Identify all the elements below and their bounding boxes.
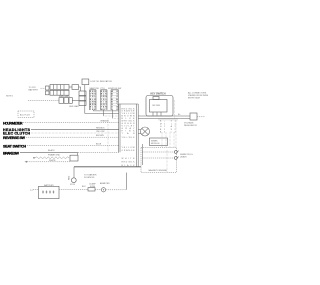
svg-text:SEAT SW: SEAT SW [90, 87, 99, 90]
svg-text:WHITE: WHITE [49, 160, 56, 162]
harness note [59, 95, 79, 108]
electric clutch [3, 131, 30, 135]
accessory plug dashed box [18, 111, 34, 118]
engine dotted drop [166, 150, 168, 173]
starter note [84, 174, 97, 180]
central harness right rail [137, 104, 139, 167]
svg-text:LEADS: LEADS [180, 156, 187, 159]
switch contact grid [160, 121, 176, 134]
magneto vertical [141, 144, 143, 165]
svg-text:YEL/BLK: YEL/BLK [122, 137, 136, 139]
svg-text:SPARK PLUG: SPARK PLUG [180, 153, 193, 156]
wire to solenoid stud [73, 167, 75, 178]
wire brake continuation [78, 151, 119, 153]
harness wire list lower [122, 137, 136, 167]
harness wire list [122, 108, 136, 135]
svg-text:OFF RUN: OFF RUN [152, 105, 161, 107]
svg-text:YELLOW: YELLOW [96, 131, 104, 133]
engine label [149, 169, 168, 172]
svg-text:BATTERY: BATTERY [29, 88, 39, 91]
relay K1 [69, 85, 79, 90]
connector J2 pin column [101, 90, 108, 111]
reverse switch [3, 136, 26, 140]
battery feed note [29, 87, 39, 92]
wire hour meter [23, 121, 119, 123]
headlights [3, 128, 31, 132]
ground zigzag lead [33, 154, 69, 159]
wire dashed to regulator [197, 116, 205, 118]
wire engine drop [126, 173, 128, 190]
wire brake / black lead [20, 151, 78, 153]
svg-text:PNK: PNK [90, 109, 96, 111]
svg-text:ELEC CLUTCH: ELEC CLUTCH [3, 131, 30, 135]
svg-text:ACC PLUG: ACC PLUG [20, 114, 30, 117]
wire K1 to F1 [79, 87, 81, 91]
engine dashed boundary [141, 148, 177, 173]
spark plug 1 [174, 151, 178, 154]
fuse F2 [88, 183, 96, 191]
low oil indicator lamp L1 [82, 79, 112, 85]
svg-text:BLUE: BLUE [96, 144, 102, 146]
starter feed arrow lead [25, 160, 71, 163]
spark plug 2 [174, 157, 178, 160]
connector note [188, 92, 209, 100]
svg-text:NOTE 1: NOTE 1 [6, 96, 14, 98]
harness top [119, 103, 139, 105]
seat switch [3, 145, 26, 149]
connector P1 [46, 85, 70, 91]
wire drop to interlock relay [77, 152, 79, 155]
svg-text:HOUR METER: HOUR METER [3, 122, 23, 126]
wire lamp to harness [85, 113, 119, 115]
key switch S1 [146, 92, 173, 116]
svg-text:SOLENOID: SOLENOID [84, 177, 95, 179]
central harness left rail [119, 104, 120, 152]
battery BT1 [39, 184, 60, 199]
regulator to engine dotted drop [175, 120, 177, 148]
svg-text:STUD: STUD [70, 184, 76, 186]
svg-text:BROWN: BROWN [96, 135, 104, 137]
fuse block F1 [79, 91, 86, 106]
spark plug note [180, 153, 193, 159]
key switch dotted drops [162, 132, 174, 148]
fuse to ammeter lead [95, 189, 101, 191]
wire dashed row C [28, 99, 59, 101]
spark plug lead 2 [142, 157, 174, 159]
connector P3 [59, 98, 72, 104]
svg-text:RED/BLK: RED/BLK [122, 161, 136, 163]
wire J1 to harness [94, 109, 120, 112]
wire clutch [31, 132, 119, 134]
connector J1 pin column [90, 90, 97, 111]
svg-text:(+): (+) [30, 189, 33, 191]
svg-text:MODULE: MODULE [151, 143, 160, 145]
connector P2 [46, 90, 70, 95]
svg-text:TO STARTER: TO STARTER [84, 174, 97, 177]
ammeter to engine lead [106, 189, 127, 191]
junction vertical dotted [107, 118, 109, 152]
hour meter [3, 122, 23, 126]
svg-text:FRAME GND: FRAME GND [48, 154, 61, 157]
svg-text:SPARK: SPARK [151, 139, 158, 142]
svg-text:BRAKE SW: BRAKE SW [3, 151, 20, 155]
contact tick bundle [159, 119, 177, 121]
svg-text:ENTRY SIDE: ENTRY SIDE [188, 98, 201, 100]
svg-text:BLACK: BLACK [122, 164, 136, 167]
wire row C to fuse block [72, 99, 79, 101]
wire headlights [31, 128, 119, 130]
connector J3 pin column [111, 90, 119, 111]
spark module box [150, 138, 168, 146]
svg-text:VOLTAGE: VOLTAGE [184, 122, 194, 125]
heavy battery cable [74, 166, 141, 168]
battery positive lead [30, 189, 39, 191]
svg-text:YELLOW: YELLOW [122, 147, 135, 149]
regulator label [184, 122, 197, 128]
svg-text:SEAT SWITCH: SEAT SWITCH [3, 145, 26, 149]
connector column headers [90, 87, 122, 90]
svg-text:BLACK: BLACK [48, 149, 55, 152]
key switch dotted feed [174, 100, 176, 120]
svg-text:GND LEAD: GND LEAD [69, 105, 79, 108]
svg-text:RED: RED [69, 175, 71, 180]
battery to fuse lead [59, 189, 88, 191]
svg-text:RED/BLK: RED/BLK [96, 127, 105, 129]
brake switch [3, 151, 20, 155]
wire bus lower [113, 117, 119, 119]
svg-text:AMMETER: AMMETER [100, 182, 110, 185]
svg-text:LOW OIL INDICATOR: LOW OIL INDICATOR [90, 80, 112, 83]
wires into ring [139, 130, 142, 134]
diode module D1 [190, 113, 197, 120]
wire J3 drop [112, 110, 114, 118]
wire bus B+ upper [104, 115, 119, 117]
spark plug lead 1 [142, 151, 174, 153]
svg-text:G R: G R [111, 109, 118, 111]
solenoid stud circle [70, 178, 76, 186]
svg-text:REVERSE SW: REVERSE SW [3, 136, 26, 140]
svg-text:REGULATOR: REGULATOR [184, 124, 197, 127]
svg-text:ORANGE: ORANGE [122, 149, 136, 152]
svg-text:MAIN HARN: MAIN HARN [59, 95, 70, 98]
svg-text:MAGNETO ENGINE: MAGNETO ENGINE [149, 169, 168, 172]
ammeter M1 [100, 182, 110, 192]
wire seat [27, 145, 119, 147]
svg-text:KEY SWITCH: KEY SWITCH [151, 92, 166, 95]
interlock relay K2 [70, 155, 78, 161]
wire from lamp down [84, 85, 86, 114]
wire dashed to connector P1 [41, 87, 46, 89]
svg-text:WHT: WHT [101, 109, 108, 111]
wire J2 drop [103, 110, 105, 116]
wire reverse [26, 136, 119, 138]
connector ring X1 [141, 127, 150, 136]
